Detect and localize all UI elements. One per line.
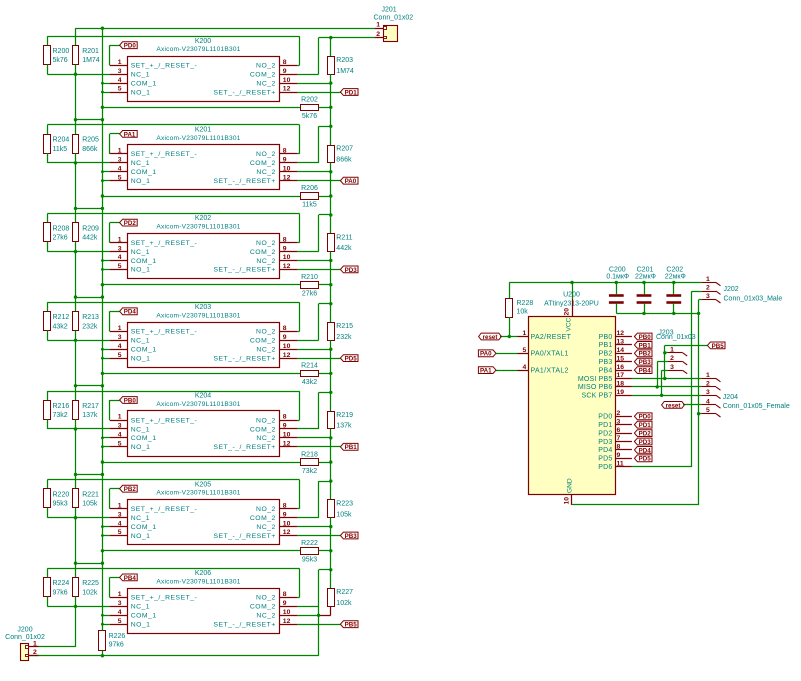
svg-text:NO_1: NO_1 <box>131 533 151 540</box>
svg-text:NC_2: NC_2 <box>256 613 275 620</box>
svg-text:3: 3 <box>118 600 122 607</box>
svg-text:R210: R210 <box>301 274 318 281</box>
svg-text:1: 1 <box>706 276 710 283</box>
svg-text:19: 19 <box>617 389 625 396</box>
svg-text:R211: R211 <box>336 234 352 241</box>
svg-text:ATtiny2313-20PU: ATtiny2313-20PU <box>544 300 599 307</box>
svg-text:PD1: PD1 <box>598 422 612 429</box>
svg-text:1: 1 <box>376 22 380 29</box>
svg-text:COM_1: COM_1 <box>131 524 157 531</box>
svg-text:PD4: PD4 <box>598 447 612 454</box>
svg-text:R218: R218 <box>301 451 318 458</box>
svg-text:K206: K206 <box>195 570 211 577</box>
svg-text:COM_1: COM_1 <box>131 613 157 620</box>
svg-text:COM_1: COM_1 <box>131 435 157 442</box>
svg-text:12: 12 <box>283 86 291 93</box>
svg-text:SET_+_/_RESET_-: SET_+_/_RESET_- <box>131 329 198 336</box>
svg-text:PD1: PD1 <box>345 89 358 96</box>
svg-text:NO_1: NO_1 <box>131 622 151 629</box>
svg-text:K202: K202 <box>195 215 211 222</box>
svg-text:12: 12 <box>617 330 625 337</box>
svg-text:MISO PB6: MISO PB6 <box>578 384 613 391</box>
svg-text:C201: C201 <box>637 266 654 273</box>
svg-text:9: 9 <box>283 600 287 607</box>
svg-text:8: 8 <box>283 325 287 332</box>
svg-text:SET_-_/_RESET+: SET_-_/_RESET+ <box>213 355 275 362</box>
svg-text:R208: R208 <box>53 225 70 232</box>
svg-text:2: 2 <box>706 380 710 387</box>
svg-text:8: 8 <box>283 236 287 243</box>
svg-text:GND: GND <box>567 478 574 493</box>
svg-text:R224: R224 <box>53 580 70 587</box>
svg-text:5: 5 <box>523 347 527 354</box>
svg-text:Axicom-V23079L1101B301: Axicom-V23079L1101B301 <box>156 224 240 231</box>
svg-text:PD1: PD1 <box>639 422 652 429</box>
svg-text:SET_+_/_RESET_-: SET_+_/_RESET_- <box>131 595 198 602</box>
svg-text:COM_2: COM_2 <box>250 426 276 433</box>
svg-text:PD0: PD0 <box>598 414 612 421</box>
svg-text:R200: R200 <box>53 48 70 55</box>
svg-text:1: 1 <box>118 502 122 509</box>
svg-text:13: 13 <box>617 339 625 346</box>
svg-text:Conn_01x05_Female: Conn_01x05_Female <box>723 403 790 410</box>
svg-text:SET_+_/_RESET_-: SET_+_/_RESET_- <box>131 417 198 424</box>
svg-text:11k5: 11k5 <box>302 202 317 209</box>
svg-text:PD5: PD5 <box>639 456 652 463</box>
svg-text:PD3: PD3 <box>598 439 612 446</box>
svg-text:PA0: PA0 <box>345 178 357 185</box>
svg-text:SET_+_/_RESET_-: SET_+_/_RESET_- <box>131 151 198 158</box>
svg-text:PA1/XTAL2: PA1/XTAL2 <box>531 367 569 374</box>
svg-text:PD3: PD3 <box>639 439 652 446</box>
svg-text:4: 4 <box>118 343 122 350</box>
svg-text:PA2/RESET: PA2/RESET <box>531 334 572 341</box>
svg-text:K205: K205 <box>195 481 211 488</box>
svg-text:12: 12 <box>283 441 291 448</box>
svg-text:1: 1 <box>118 59 122 66</box>
svg-text:R217: R217 <box>82 403 99 410</box>
svg-text:U200: U200 <box>563 291 580 298</box>
svg-text:PD5: PD5 <box>345 356 358 363</box>
svg-text:9: 9 <box>283 157 287 164</box>
svg-text:NO_2: NO_2 <box>256 240 276 247</box>
svg-text:PB1: PB1 <box>639 342 652 349</box>
svg-text:12: 12 <box>283 174 291 181</box>
svg-text:10: 10 <box>283 432 291 439</box>
svg-text:20: 20 <box>564 308 571 316</box>
svg-text:866k: 866k <box>82 146 98 153</box>
svg-text:R204: R204 <box>53 137 70 144</box>
svg-text:SET_-_/_RESET+: SET_-_/_RESET+ <box>213 444 275 451</box>
svg-text:PD5: PD5 <box>598 456 612 463</box>
svg-text:3: 3 <box>706 389 710 396</box>
svg-text:5: 5 <box>118 263 122 270</box>
svg-text:12: 12 <box>283 529 291 536</box>
svg-text:SET_-_/_RESET+: SET_-_/_RESET+ <box>213 178 275 185</box>
svg-text:COM_1: COM_1 <box>131 80 157 87</box>
svg-text:11k5: 11k5 <box>53 146 68 153</box>
svg-text:NC_1: NC_1 <box>131 604 150 611</box>
svg-text:Axicom-V23079L1101B301: Axicom-V23079L1101B301 <box>156 401 240 408</box>
svg-text:105k: 105k <box>336 511 352 518</box>
svg-text:1: 1 <box>706 372 710 379</box>
svg-text:10k: 10k <box>517 309 529 316</box>
svg-text:R213: R213 <box>82 314 99 321</box>
svg-text:PB2: PB2 <box>639 351 652 358</box>
svg-text:NO_1: NO_1 <box>131 89 151 96</box>
svg-text:5k76: 5k76 <box>302 113 317 120</box>
svg-text:5: 5 <box>118 86 122 93</box>
svg-text:R228: R228 <box>517 300 534 307</box>
svg-text:NC_1: NC_1 <box>131 160 150 167</box>
svg-text:1: 1 <box>33 640 37 647</box>
svg-text:NC_1: NC_1 <box>131 72 150 79</box>
svg-text:R227: R227 <box>336 589 353 596</box>
svg-text:NC_2: NC_2 <box>256 524 275 531</box>
svg-text:4: 4 <box>118 609 122 616</box>
svg-text:MOSI PB5: MOSI PB5 <box>578 376 613 383</box>
svg-text:PB1: PB1 <box>345 444 358 451</box>
svg-text:reset: reset <box>483 334 498 341</box>
svg-text:1: 1 <box>670 346 674 353</box>
svg-text:K203: K203 <box>195 304 211 311</box>
svg-text:10: 10 <box>283 254 291 261</box>
svg-text:97k6: 97k6 <box>53 589 68 596</box>
svg-text:97k6: 97k6 <box>109 641 124 648</box>
svg-text:7: 7 <box>617 435 621 442</box>
svg-text:4: 4 <box>706 398 710 405</box>
svg-text:0.1мкФ: 0.1мкФ <box>606 273 629 280</box>
svg-text:SET_+_/_RESET_-: SET_+_/_RESET_- <box>131 506 198 513</box>
svg-text:R222: R222 <box>301 540 318 547</box>
svg-text:1: 1 <box>118 236 122 243</box>
svg-text:2: 2 <box>670 355 674 362</box>
svg-text:R220: R220 <box>53 492 70 499</box>
svg-text:NO_1: NO_1 <box>131 178 151 185</box>
svg-text:3: 3 <box>118 157 122 164</box>
svg-text:8: 8 <box>283 591 287 598</box>
svg-text:27k6: 27k6 <box>53 235 68 242</box>
svg-text:14: 14 <box>617 347 625 354</box>
svg-text:18: 18 <box>617 381 625 388</box>
svg-text:NC_2: NC_2 <box>256 347 275 354</box>
svg-text:3: 3 <box>670 364 674 371</box>
svg-text:SET_-_/_RESET+: SET_-_/_RESET+ <box>213 622 275 629</box>
svg-text:C200: C200 <box>609 266 626 273</box>
svg-text:PB4: PB4 <box>639 368 652 375</box>
svg-text:10: 10 <box>564 497 571 505</box>
svg-text:NC_2: NC_2 <box>256 169 275 176</box>
svg-text:PB2: PB2 <box>124 486 137 493</box>
svg-text:COM_2: COM_2 <box>250 515 276 522</box>
svg-text:J201: J201 <box>382 7 397 14</box>
svg-text:1: 1 <box>118 414 122 421</box>
svg-text:9: 9 <box>283 334 287 341</box>
svg-text:5k76: 5k76 <box>53 57 68 64</box>
svg-text:442k: 442k <box>336 245 352 252</box>
svg-text:10: 10 <box>283 343 291 350</box>
svg-text:Conn_01x02: Conn_01x02 <box>5 634 45 641</box>
svg-text:5: 5 <box>118 352 122 359</box>
svg-text:SCK PB7: SCK PB7 <box>582 393 613 400</box>
svg-text:R202: R202 <box>301 97 318 104</box>
svg-text:1: 1 <box>118 148 122 155</box>
svg-text:9: 9 <box>617 452 621 459</box>
svg-text:COM_2: COM_2 <box>250 72 276 79</box>
svg-text:NO_1: NO_1 <box>131 444 151 451</box>
svg-text:NC_1: NC_1 <box>131 426 150 433</box>
svg-text:R207: R207 <box>336 146 353 153</box>
svg-text:NO_2: NO_2 <box>256 595 276 602</box>
svg-text:PD0: PD0 <box>124 43 137 50</box>
svg-text:9: 9 <box>283 423 287 430</box>
svg-text:4: 4 <box>523 364 527 371</box>
svg-text:R216: R216 <box>53 403 70 410</box>
svg-text:PB1: PB1 <box>599 342 613 349</box>
svg-text:102k: 102k <box>336 600 352 607</box>
svg-text:Axicom-V23079L1101B301: Axicom-V23079L1101B301 <box>156 312 240 319</box>
svg-text:PD2: PD2 <box>124 220 137 227</box>
svg-text:9: 9 <box>283 511 287 518</box>
svg-text:PB5: PB5 <box>345 622 358 629</box>
svg-text:12: 12 <box>283 618 291 625</box>
svg-text:9: 9 <box>283 68 287 75</box>
svg-text:3: 3 <box>118 245 122 252</box>
svg-text:232k: 232k <box>336 334 352 341</box>
svg-text:Axicom-V23079L1101B301: Axicom-V23079L1101B301 <box>156 578 240 585</box>
svg-text:K200: K200 <box>195 38 211 45</box>
svg-text:15: 15 <box>617 355 625 362</box>
svg-text:1: 1 <box>118 325 122 332</box>
svg-text:R221: R221 <box>82 492 99 499</box>
svg-text:Axicom-V23079L1101B301: Axicom-V23079L1101B301 <box>156 46 240 53</box>
svg-text:PA0/XTAL1: PA0/XTAL1 <box>531 351 569 358</box>
svg-text:PD2: PD2 <box>598 430 612 437</box>
svg-text:R201: R201 <box>82 48 99 55</box>
svg-text:Axicom-V23079L1101B301: Axicom-V23079L1101B301 <box>156 135 240 142</box>
svg-text:PB2: PB2 <box>599 351 613 358</box>
svg-text:5: 5 <box>706 407 710 414</box>
svg-text:R214: R214 <box>301 363 318 370</box>
svg-text:43k2: 43k2 <box>302 379 317 386</box>
svg-text:PD4: PD4 <box>639 447 652 454</box>
svg-text:22мкФ: 22мкФ <box>665 273 686 280</box>
svg-text:NC_1: NC_1 <box>131 249 150 256</box>
svg-text:COM_2: COM_2 <box>250 160 276 167</box>
svg-text:R226: R226 <box>109 633 126 640</box>
svg-text:8: 8 <box>283 59 287 66</box>
svg-text:PD3: PD3 <box>345 267 358 274</box>
svg-text:J202: J202 <box>724 286 739 293</box>
svg-text:866k: 866k <box>336 157 352 164</box>
svg-text:2: 2 <box>617 410 621 417</box>
svg-text:PB4: PB4 <box>124 575 137 582</box>
svg-text:2: 2 <box>33 649 37 656</box>
svg-text:C202: C202 <box>666 266 683 273</box>
svg-text:10: 10 <box>283 166 291 173</box>
svg-text:1M74: 1M74 <box>336 68 354 75</box>
svg-text:PD6: PD6 <box>598 464 612 471</box>
svg-text:10: 10 <box>283 520 291 527</box>
svg-text:6: 6 <box>617 427 621 434</box>
svg-text:NO_2: NO_2 <box>256 329 276 336</box>
svg-text:NO_1: NO_1 <box>131 267 151 274</box>
svg-text:137k: 137k <box>336 423 352 430</box>
svg-text:Conn_01x03: Conn_01x03 <box>656 334 696 341</box>
svg-text:NC_1: NC_1 <box>131 338 150 345</box>
svg-text:NC_2: NC_2 <box>256 258 275 265</box>
svg-text:PB3: PB3 <box>599 359 613 366</box>
svg-text:NC_1: NC_1 <box>131 515 150 522</box>
svg-text:COM_2: COM_2 <box>250 249 276 256</box>
svg-text:1: 1 <box>523 330 527 337</box>
svg-text:8: 8 <box>283 502 287 509</box>
svg-text:Conn_01x02: Conn_01x02 <box>374 15 414 22</box>
svg-text:J204: J204 <box>723 394 738 401</box>
svg-text:COM_1: COM_1 <box>131 258 157 265</box>
svg-text:8: 8 <box>283 148 287 155</box>
svg-text:PB0: PB0 <box>639 334 652 341</box>
svg-text:12: 12 <box>283 263 291 270</box>
svg-text:10: 10 <box>283 77 291 84</box>
svg-text:R215: R215 <box>336 323 353 330</box>
svg-text:PD0: PD0 <box>639 414 652 421</box>
svg-text:J200: J200 <box>17 626 32 633</box>
svg-text:NC_2: NC_2 <box>256 80 275 87</box>
svg-text:COM_2: COM_2 <box>250 338 276 345</box>
svg-text:R212: R212 <box>53 314 70 321</box>
svg-text:8: 8 <box>283 414 287 421</box>
svg-text:R209: R209 <box>82 225 99 232</box>
svg-text:95k3: 95k3 <box>53 501 68 508</box>
svg-text:R219: R219 <box>336 412 353 419</box>
svg-text:K201: K201 <box>195 127 211 134</box>
svg-text:442k: 442k <box>82 235 98 242</box>
svg-text:COM_2: COM_2 <box>250 604 276 611</box>
svg-text:SET_-_/_RESET+: SET_-_/_RESET+ <box>213 533 275 540</box>
svg-text:COM_1: COM_1 <box>131 347 157 354</box>
svg-text:5: 5 <box>118 529 122 536</box>
svg-text:1M74: 1M74 <box>82 57 100 64</box>
svg-text:R223: R223 <box>336 501 353 508</box>
svg-text:R206: R206 <box>301 185 318 192</box>
svg-text:PB4: PB4 <box>599 367 613 374</box>
svg-text:232k: 232k <box>82 323 98 330</box>
svg-text:2: 2 <box>706 285 710 292</box>
svg-text:R205: R205 <box>82 137 99 144</box>
svg-text:NC_2: NC_2 <box>256 435 275 442</box>
svg-text:SET_-_/_RESET+: SET_-_/_RESET+ <box>213 267 275 274</box>
svg-text:43k2: 43k2 <box>53 323 68 330</box>
svg-text:4: 4 <box>118 520 122 527</box>
svg-text:5: 5 <box>118 618 122 625</box>
svg-text:137k: 137k <box>82 412 98 419</box>
svg-text:4: 4 <box>118 432 122 439</box>
svg-text:10: 10 <box>283 609 291 616</box>
svg-text:12: 12 <box>283 352 291 359</box>
svg-text:Conn_01x03_Male: Conn_01x03_Male <box>724 295 783 302</box>
svg-text:5: 5 <box>118 441 122 448</box>
svg-text:PB0: PB0 <box>599 334 613 341</box>
svg-text:3: 3 <box>118 511 122 518</box>
svg-text:COM_1: COM_1 <box>131 169 157 176</box>
svg-text:8: 8 <box>617 444 621 451</box>
svg-text:K204: K204 <box>195 393 211 400</box>
svg-text:3: 3 <box>617 418 621 425</box>
svg-text:16: 16 <box>617 364 625 371</box>
svg-text:73k2: 73k2 <box>53 412 68 419</box>
svg-text:Axicom-V23079L1101B301: Axicom-V23079L1101B301 <box>156 490 240 497</box>
svg-text:SET_-_/_RESET+: SET_-_/_RESET+ <box>213 89 275 96</box>
svg-text:9: 9 <box>283 245 287 252</box>
svg-text:NO_2: NO_2 <box>256 506 276 513</box>
svg-text:NO_2: NO_2 <box>256 151 276 158</box>
svg-text:4: 4 <box>118 77 122 84</box>
svg-text:VCC: VCC <box>565 317 572 331</box>
svg-text:17: 17 <box>617 372 625 379</box>
svg-text:73k2: 73k2 <box>302 468 317 475</box>
svg-text:reset: reset <box>666 402 681 409</box>
svg-text:1: 1 <box>118 591 122 598</box>
svg-text:11: 11 <box>617 460 624 467</box>
svg-text:27k6: 27k6 <box>302 290 317 297</box>
svg-text:PD2: PD2 <box>639 431 652 438</box>
svg-text:95k3: 95k3 <box>302 557 317 564</box>
svg-text:3: 3 <box>118 423 122 430</box>
svg-text:PB0: PB0 <box>124 397 137 404</box>
svg-text:PD4: PD4 <box>124 309 137 316</box>
svg-text:102k: 102k <box>82 589 98 596</box>
svg-text:PA1: PA1 <box>480 368 492 375</box>
svg-text:PA0: PA0 <box>480 351 492 358</box>
svg-text:R225: R225 <box>82 580 99 587</box>
svg-text:2: 2 <box>376 31 380 38</box>
svg-text:3: 3 <box>118 334 122 341</box>
svg-text:5: 5 <box>118 174 122 181</box>
svg-text:NO_2: NO_2 <box>256 63 276 70</box>
svg-text:PB3: PB3 <box>639 359 652 366</box>
svg-text:3: 3 <box>706 293 710 300</box>
svg-text:4: 4 <box>118 166 122 173</box>
svg-text:PB5: PB5 <box>712 343 725 350</box>
svg-text:PA1: PA1 <box>124 131 136 138</box>
svg-text:NO_1: NO_1 <box>131 355 151 362</box>
svg-text:SET_+_/_RESET_-: SET_+_/_RESET_- <box>131 240 198 247</box>
svg-text:3: 3 <box>118 68 122 75</box>
svg-text:4: 4 <box>118 254 122 261</box>
svg-text:R203: R203 <box>336 57 353 64</box>
svg-text:NO_2: NO_2 <box>256 417 276 424</box>
svg-text:105k: 105k <box>82 501 98 508</box>
svg-text:SET_+_/_RESET_-: SET_+_/_RESET_- <box>131 63 198 70</box>
svg-text:22мкФ: 22мкФ <box>635 273 656 280</box>
svg-text:PB3: PB3 <box>345 533 358 540</box>
